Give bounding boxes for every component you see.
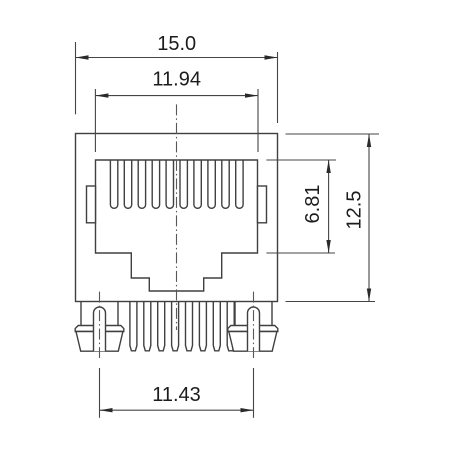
extension line 12.5 bottom — [286, 301, 376, 303]
extension line 6.81 top — [266, 159, 336, 161]
svg-text:15.0: 15.0 — [157, 33, 196, 55]
right foot centerline — [253, 292, 255, 358]
right foot shoulder lines — [235, 302, 272, 326]
arrowhead 11.94 left — [95, 93, 108, 97]
contact slot 2 — [124, 160, 131, 208]
contact slot 8 — [208, 160, 215, 208]
right foot flange — [228, 326, 278, 332]
contact slot 5 — [166, 160, 173, 208]
left latch tab — [87, 186, 96, 223]
extension line 15.0 right — [277, 52, 279, 123]
contact slot 1 — [110, 160, 117, 208]
svg-text:11.43: 11.43 — [152, 384, 201, 406]
extension line 11.43 left — [99, 368, 101, 418]
arrowhead 6.81 bottom — [326, 240, 330, 253]
arrowhead 6.81 top — [326, 160, 330, 173]
leg 6 — [199, 302, 206, 351]
extension line 11.43 right — [253, 368, 255, 418]
extension line 11.94 right — [257, 89, 259, 152]
dimension line 6.81 — [328, 160, 330, 253]
arrowhead 15.0 right — [265, 55, 278, 59]
left foot centerline — [99, 292, 101, 358]
extension line 15.0 left — [75, 42, 77, 114]
leg 7 — [213, 302, 220, 351]
svg-text:11.94: 11.94 — [152, 69, 201, 91]
dimension line 12.5 — [368, 134, 370, 302]
contact slot 9 — [222, 160, 229, 208]
left foot pin — [94, 307, 106, 351]
svg-text:6.81: 6.81 — [302, 185, 324, 224]
right foot trapezoid — [229, 332, 277, 352]
arrowhead 15.0 left — [76, 55, 89, 59]
svg-text:12.5: 12.5 — [344, 191, 366, 230]
leg 8 — [227, 302, 234, 351]
extension line 6.81 bottom — [266, 252, 335, 254]
contact slot 6 — [180, 160, 187, 208]
leg 5 — [186, 302, 193, 351]
leg 1 — [130, 302, 137, 351]
connector body outline — [76, 134, 278, 302]
dimension line 11.94 — [95, 95, 258, 97]
leg 3 — [158, 302, 165, 351]
contact slot 4 — [152, 160, 159, 208]
arrowhead 11.94 right — [245, 93, 258, 97]
main vertical centerline — [176, 104, 178, 330]
left foot shoulder lines — [81, 302, 118, 326]
right latch tab — [258, 186, 267, 223]
left foot flange — [75, 326, 124, 332]
contact slot 10 — [236, 160, 243, 208]
dimension line 15.0 — [76, 57, 278, 59]
dimension line 11.43 — [100, 409, 254, 411]
leg 2 — [144, 302, 151, 351]
leg 4 — [172, 302, 179, 351]
extension line 12.5 top — [286, 133, 380, 135]
right foot pin — [248, 307, 260, 351]
arrowhead 11.43 right — [241, 408, 254, 412]
contact slot 7 — [194, 160, 201, 208]
left foot trapezoid — [76, 332, 123, 352]
arrowhead 12.5 top — [367, 134, 371, 147]
extension line 11.94 left — [94, 89, 96, 152]
arrowhead 11.43 left — [100, 408, 113, 412]
arrowhead 12.5 bottom — [367, 289, 371, 302]
jack opening outline — [96, 160, 258, 291]
contact slot 3 — [138, 160, 145, 208]
